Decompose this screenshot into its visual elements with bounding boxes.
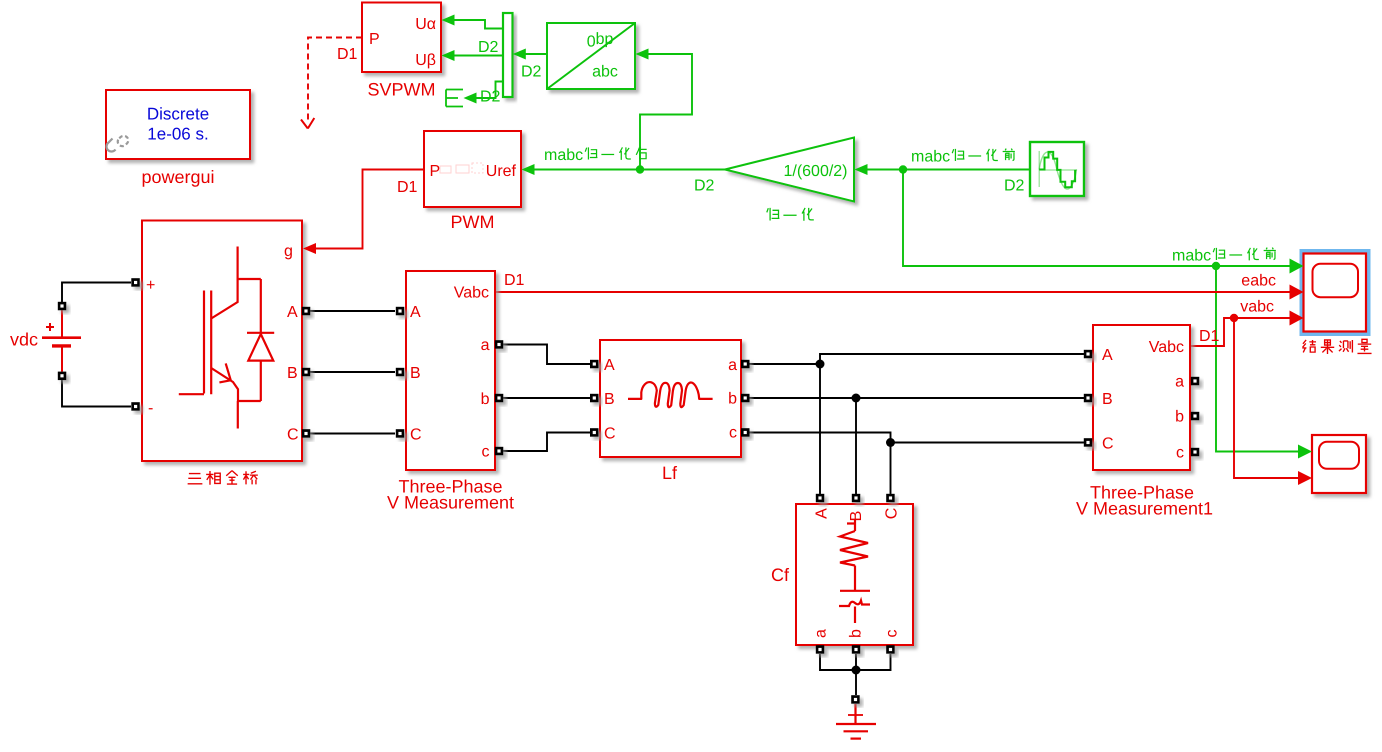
svg-text:D2: D2 <box>1004 178 1025 195</box>
svg-text:Uβ: Uβ <box>415 52 436 69</box>
svg-text:vabc: vabc <box>1240 299 1274 316</box>
wire: node C down to Cf C <box>890 443 892 495</box>
label jie-guo-ce-liang <box>1302 340 1316 352</box>
port vdc + <box>58 302 67 311</box>
green junction uref branch <box>636 165 644 173</box>
IGBT + diode icon inside bridge <box>179 247 274 429</box>
svg-text:A: A <box>813 508 830 519</box>
port bridge C <box>302 429 311 438</box>
svg-text:c: c <box>1176 445 1184 462</box>
port Vmeas1 a <box>1191 377 1200 386</box>
port Cf A <box>816 494 825 503</box>
wire: junction up to dq0-abc input <box>640 54 692 170</box>
PWM block U2 <box>424 131 521 207</box>
port Vmeas1 b <box>1191 412 1200 421</box>
svg-text:mabc: mabc <box>544 147 583 164</box>
svg-text:b: b <box>728 391 737 408</box>
svg-text:Cf: Cf <box>771 565 790 585</box>
svg-text:B: B <box>848 511 865 522</box>
wire: vdc+ to bridge + <box>62 283 131 303</box>
green junction mabc2 <box>1212 262 1220 270</box>
svg-text:a: a <box>728 357 737 374</box>
svg-text:C: C <box>410 427 422 444</box>
svg-text:V Measurement1: V Measurement1 <box>1076 499 1213 519</box>
terminator for unused demux output <box>446 90 463 107</box>
port Vmeas1 c <box>1191 448 1200 457</box>
SVPWM block U1 <box>362 3 441 73</box>
svg-text:powergui: powergui <box>141 167 214 187</box>
port Vmeas a <box>495 340 504 349</box>
svg-text:Uref: Uref <box>486 163 517 180</box>
svg-text:D2: D2 <box>478 39 499 56</box>
port Vmeas1 B <box>1084 394 1093 403</box>
wire: dq0-abc output to demux <box>524 53 547 55</box>
svg-text:B: B <box>1102 391 1113 408</box>
svg-text:Vabc: Vabc <box>454 285 489 302</box>
svg-text:D1: D1 <box>397 179 418 196</box>
port bridge A <box>302 307 311 316</box>
svg-text:B: B <box>604 391 615 408</box>
svg-text:1e-06 s.: 1e-06 s. <box>147 125 208 144</box>
svg-text:SVPWM: SVPWM <box>367 80 435 100</box>
port bridge - <box>131 402 140 411</box>
series RC icon inside Cf <box>839 519 870 623</box>
arrow into gain <box>855 164 868 175</box>
svg-text:D2: D2 <box>521 64 542 81</box>
wire: bridge C to Vmeas C <box>310 433 395 435</box>
wire: vabc node down to scope2 <box>1234 318 1300 478</box>
svg-text:b: b <box>1175 409 1184 426</box>
port Cf c <box>886 645 895 654</box>
port Cf C <box>886 494 895 503</box>
wire: Vmeas Vabc to scope1 eabc input <box>495 291 1291 293</box>
stair source icon <box>1039 151 1077 189</box>
arrow into scope1 input2 <box>1290 285 1304 300</box>
svg-text:Lf: Lf <box>662 463 678 483</box>
svg-text:Discrete: Discrete <box>147 105 209 124</box>
wire: node C to Vmeas1 C <box>891 442 1085 444</box>
svg-text:g: g <box>284 243 293 260</box>
gain block 1/(600/2) <box>725 138 854 202</box>
scope2 <box>1312 435 1366 493</box>
port Lf C <box>590 428 599 437</box>
port Lf B <box>590 394 599 403</box>
svg-text:Vabc: Vabc <box>1149 339 1184 356</box>
stair source block <box>1030 142 1084 196</box>
wire: Cf c to neutral node <box>856 654 891 670</box>
svg-text:1/(600/2): 1/(600/2) <box>783 163 847 180</box>
wire: Vmeas b to Lf B <box>503 397 590 399</box>
arrowhead of dashed dangling wire <box>301 118 314 129</box>
svg-text:D1: D1 <box>504 272 525 289</box>
ground block <box>836 704 876 739</box>
wire: demux out3 to terminator <box>476 82 503 99</box>
dq0 to abc transform block <box>547 23 635 89</box>
three-phase bridge block (universal bridge) <box>142 221 302 462</box>
wire: Cf b to neutral node and ground <box>855 654 857 695</box>
wire: bridge A to Vmeas A <box>310 310 395 312</box>
svg-text:D2: D2 <box>480 89 501 106</box>
port Vmeas A <box>396 307 405 316</box>
port Lf b <box>741 394 750 403</box>
svg-text:A: A <box>287 304 298 321</box>
port Vmeas c <box>495 447 504 456</box>
wire: demux out1 to SVPWM Ua <box>453 20 503 29</box>
svg-text:B: B <box>287 365 298 382</box>
svg-text:eabc: eabc <box>1241 273 1276 290</box>
arrow into bridge g <box>303 243 316 254</box>
svg-text:vdc: vdc <box>10 330 38 350</box>
Three-Phase V Measurement1 block <box>1093 325 1190 470</box>
svg-text:a: a <box>812 629 829 638</box>
port Cf a <box>816 645 825 654</box>
arrow into demux <box>513 49 526 60</box>
svg-text:C: C <box>883 508 900 520</box>
wire: junction to gain input <box>866 169 903 171</box>
wire: Lf c to node C <box>749 433 891 443</box>
Three-Phase V Measurement block <box>406 271 495 470</box>
wire: node B down to Cf B <box>855 398 857 494</box>
svg-text:D1: D1 <box>1199 328 1220 345</box>
port Lf c <box>741 428 750 437</box>
port Vmeas b <box>495 394 504 403</box>
demux block (green) <box>503 13 513 97</box>
svg-text:abc: abc <box>592 64 618 81</box>
wire: Cf a to neutral node <box>820 654 856 670</box>
port Vmeas1 A <box>1084 350 1093 359</box>
svg-text:D2: D2 <box>694 178 715 195</box>
wire: Vmeas1 Vabc to vabc node <box>1190 318 1291 346</box>
wire: green junction down to scope1 <box>903 170 1291 267</box>
svg-text:V Measurement: V Measurement <box>387 493 514 513</box>
wire: Vmeas a to Lf A <box>503 345 590 365</box>
wire: Lf b through node B to Vmeas1 B <box>749 397 1084 399</box>
svg-text:b: b <box>481 391 490 408</box>
DC source vdc <box>42 310 81 372</box>
wire: vdc- to bridge - <box>62 380 131 407</box>
arrow into dq0-abc <box>636 49 649 60</box>
svg-text:a: a <box>481 337 490 354</box>
svg-text:P: P <box>369 31 380 48</box>
wire: node A down to Cf A <box>819 364 821 494</box>
port Vmeas1 C <box>1084 438 1093 447</box>
wire: Lf a to node A <box>749 363 820 365</box>
svg-text:b: b <box>847 629 864 638</box>
svg-text:C: C <box>287 427 299 444</box>
broken library link icon <box>107 134 131 152</box>
wire: bridge B to Vmeas B <box>310 371 395 373</box>
svg-text:B: B <box>410 365 421 382</box>
wire: green junction2 down to scope2 <box>1216 266 1300 452</box>
svg-text:a: a <box>1175 374 1184 391</box>
arrow into SVPWM Ub <box>442 50 455 61</box>
port bridge B <box>302 368 311 377</box>
label gui-yi-hua (normalisation) <box>767 208 780 221</box>
svg-text:mabc: mabc <box>1172 248 1211 265</box>
svg-text:P: P <box>430 163 441 180</box>
arrow into SVPWM Ua <box>442 15 455 26</box>
node B junction <box>852 394 861 403</box>
wire: node A to Vmeas1 A <box>820 354 1084 364</box>
arrow into scope2 input2 <box>1298 471 1312 485</box>
arrow into PWM Uref <box>522 164 535 175</box>
red junction vabc <box>1230 314 1238 322</box>
node A junction <box>816 360 825 369</box>
label san-xiang-quan-qiao (three-phase full bridge) <box>188 474 203 484</box>
svg-text:+: + <box>146 277 155 294</box>
wire: PWM P output to bridge g input <box>315 170 424 249</box>
node C junction <box>886 438 895 447</box>
svg-text:dq0: dq0 <box>587 32 614 49</box>
port Lf A <box>590 360 599 369</box>
svg-text:PWM: PWM <box>451 212 495 232</box>
arrow into scope1 input1 <box>1290 259 1304 274</box>
port vdc - <box>58 372 67 381</box>
inductor coil icon <box>628 382 713 407</box>
wire: stair source to green junction <box>903 169 1030 171</box>
neutral junction <box>852 666 861 675</box>
port ground <box>851 695 860 704</box>
svg-text:C: C <box>1102 436 1114 453</box>
svg-text:c: c <box>883 630 900 638</box>
svg-text:D1: D1 <box>337 46 358 63</box>
port Cf B <box>852 494 861 503</box>
svg-text:-: - <box>148 400 153 417</box>
svg-text:Uα: Uα <box>415 16 436 33</box>
svg-text:C: C <box>604 426 616 443</box>
svg-text:A: A <box>1102 347 1113 364</box>
Lf inductor block <box>600 340 741 457</box>
svg-text:c: c <box>729 425 737 442</box>
wire: Vmeas c to Lf C <box>503 433 590 452</box>
wire: demux out2 to SVPWM Ub <box>453 55 503 57</box>
port bridge + <box>131 278 140 287</box>
port Cf b <box>852 645 861 654</box>
port Vmeas C <box>396 429 405 438</box>
arrow into terminator <box>464 93 477 104</box>
arrow into scope1 input3 <box>1290 311 1304 326</box>
svg-text:A: A <box>604 357 615 374</box>
svg-text:c: c <box>482 444 490 461</box>
green junction mabc <box>899 165 907 173</box>
Cf capacitor bank block (series RC branch) <box>796 504 913 645</box>
port Vmeas B <box>396 368 405 377</box>
faint inner icon of PWM block <box>440 163 483 173</box>
svg-text:A: A <box>410 304 421 321</box>
svg-text:mabc: mabc <box>911 149 950 166</box>
arrow into scope2 input1 <box>1298 445 1312 459</box>
wire: gain output to PWM Uref <box>534 169 727 171</box>
powergui block <box>106 90 250 159</box>
port Lf a <box>741 360 750 369</box>
wire: dangling dashed signal from SVPWM P <box>308 38 362 121</box>
scope1 jie-guo-ce-liang (result measurement), selected <box>1300 249 1371 336</box>
